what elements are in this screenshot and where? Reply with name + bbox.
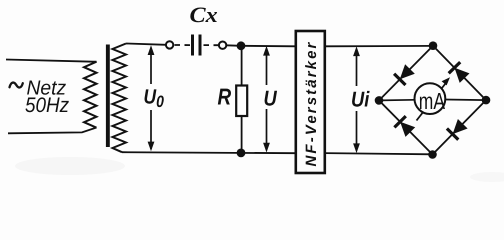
resistor R body	[236, 86, 247, 117]
voltage arrow U	[263, 46, 270, 153]
wire dashed lead to Cx left	[175, 44, 191, 46]
bridge edge top-left wire	[379, 46, 433, 101]
amplifier box NF-Verstärker	[296, 31, 325, 173]
bridge edge bottom-left wire	[379, 100, 433, 154]
label ~ (AC symbol)	[10, 83, 23, 88]
meter needle	[417, 77, 451, 120]
node junction top of R	[237, 41, 246, 50]
label mA	[419, 88, 446, 114]
wire R bottom lead	[241, 116, 243, 153]
svg-text:Ui: Ui	[351, 88, 370, 112]
transformer T1 core	[106, 45, 110, 148]
capacitor Cx left plate	[191, 35, 194, 56]
wire secondary top to terminal	[126, 44, 166, 45]
node junction bottom of R	[237, 149, 246, 158]
wire dashed lead from Cx right	[204, 44, 219, 46]
diode D2 top-right	[449, 62, 470, 83]
wire terminal to node	[226, 44, 241, 47]
wire R top lead	[241, 46, 243, 86]
node bridge top corner	[429, 41, 438, 50]
diode D4 bottom-right	[447, 119, 468, 140]
transformer T1 secondary coil	[113, 44, 127, 153]
node bridge right corner	[482, 96, 491, 105]
wire secondary bottom	[122, 152, 296, 153]
node bridge bottom corner	[428, 150, 437, 159]
capacitor Cx right plate	[199, 35, 202, 56]
wire mains top lead	[6, 60, 93, 62]
transformer T1 primary coil	[84, 62, 97, 128]
voltage arrow U0	[148, 45, 155, 151]
terminal circle left of Cx	[166, 41, 173, 48]
terminal circle right of Cx	[219, 42, 226, 49]
scan smudge bottom right	[470, 172, 504, 182]
wire node to amplifier	[241, 45, 296, 48]
wire meter to right corner	[445, 99, 486, 102]
meter M1 circle	[415, 83, 446, 114]
svg-text:Cx: Cx	[190, 3, 218, 27]
wire left corner to meter	[379, 99, 415, 102]
voltage arrow Ui	[353, 46, 360, 153]
svg-text:U: U	[264, 87, 278, 111]
bridge edge bottom-right wire	[433, 100, 487, 154]
node bridge left corner	[375, 96, 384, 105]
wire mains bottom lead	[8, 128, 97, 134]
svg-text:50Hz: 50Hz	[25, 94, 70, 117]
diode D1 top-left	[394, 64, 415, 85]
scan smudge bottom left	[15, 157, 125, 175]
wire amplifier to bridge bottom	[325, 153, 433, 154]
wire amplifier to bridge top	[325, 45, 433, 47]
svg-text:R: R	[218, 83, 232, 109]
bridge edge top-right wire	[433, 46, 486, 100]
svg-text:mA: mA	[419, 88, 446, 114]
svg-text:NF-Verstärker: NF-Verstärker	[303, 41, 320, 167]
diode D3 bottom-left	[394, 116, 415, 137]
